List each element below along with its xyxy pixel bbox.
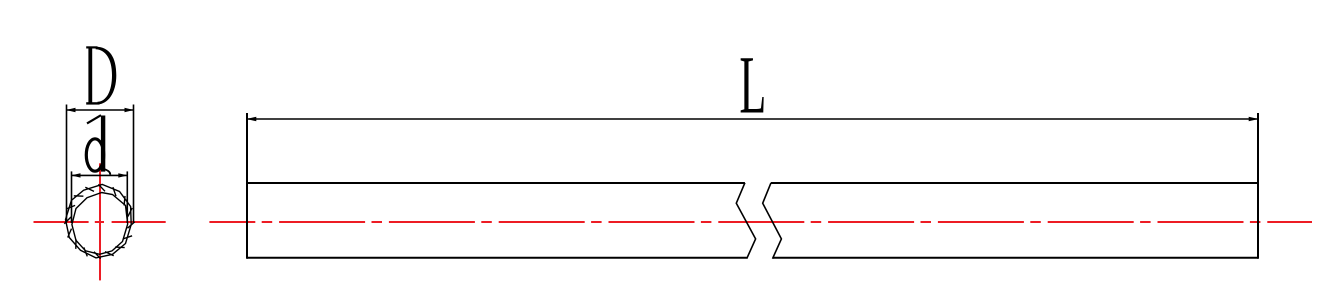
- svg-text:L: L: [739, 40, 766, 131]
